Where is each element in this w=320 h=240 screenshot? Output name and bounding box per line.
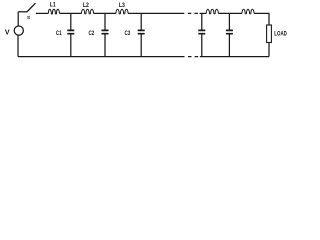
inductor L3	[116, 9, 128, 14]
svg-text:S: S	[27, 15, 30, 20]
wire bottom rail left	[18, 56, 185, 58]
switch S blade	[27, 3, 36, 12]
voltage source V	[14, 26, 23, 35]
capacitor (unlabeled B) top lead	[228, 13, 230, 30]
capacitor (unlabeled B) bottom lead	[228, 34, 230, 56]
wire source top lead	[17, 12, 19, 26]
svg-text:C1: C1	[56, 30, 62, 37]
capacitor C3 bottom lead	[140, 34, 142, 56]
svg-text:V: V	[5, 30, 10, 37]
inductor (unlabeled, 4th)	[206, 9, 218, 14]
wire top rail segment 1	[36, 12, 49, 14]
wire top rail dashed break	[188, 12, 198, 14]
svg-text:L3: L3	[119, 2, 125, 9]
wire source bottom lead	[17, 35, 19, 56]
wire top rail segment 5	[200, 12, 207, 14]
svg-text:C2: C2	[89, 30, 95, 37]
capacitor C1 bottom lead	[70, 34, 72, 56]
inductor L2	[82, 9, 94, 14]
capacitor C1 top lead	[70, 13, 72, 30]
capacitor C3 top lead	[140, 13, 142, 30]
capacitor C2 bottom lead	[104, 34, 106, 56]
wire top rail segment 4	[128, 12, 184, 14]
svg-text:C3: C3	[125, 30, 131, 37]
svg-text:L1: L1	[50, 2, 56, 9]
inductor L1	[48, 9, 59, 14]
capacitor (unlabeled B) plates	[226, 30, 233, 33]
capacitor C2 plates	[102, 30, 109, 33]
wire load bottom lead	[268, 43, 270, 57]
svg-text:LOAD: LOAD	[274, 31, 287, 37]
svg-text:L2: L2	[83, 2, 89, 9]
capacitor (unlabeled A) top lead	[201, 13, 203, 30]
capacitor C2 top lead	[104, 13, 106, 30]
wire bottom rail right	[200, 56, 269, 58]
capacitor (unlabeled A) plates	[198, 30, 205, 33]
wire top rail segment 7 to load corner	[254, 13, 269, 25]
wire top rail segment 3	[94, 12, 117, 14]
wire bottom rail dashed break	[188, 56, 198, 58]
capacitor (unlabeled A) bottom lead	[201, 34, 203, 56]
capacitor C3 plates	[138, 30, 145, 33]
wire top rail segment 2	[59, 12, 81, 14]
capacitor C1 plates	[67, 30, 74, 33]
resistor LOAD box	[267, 25, 272, 43]
wire switch stub	[18, 11, 27, 13]
wire top rail segment 6	[218, 12, 242, 14]
inductor (unlabeled, 5th)	[242, 9, 254, 14]
